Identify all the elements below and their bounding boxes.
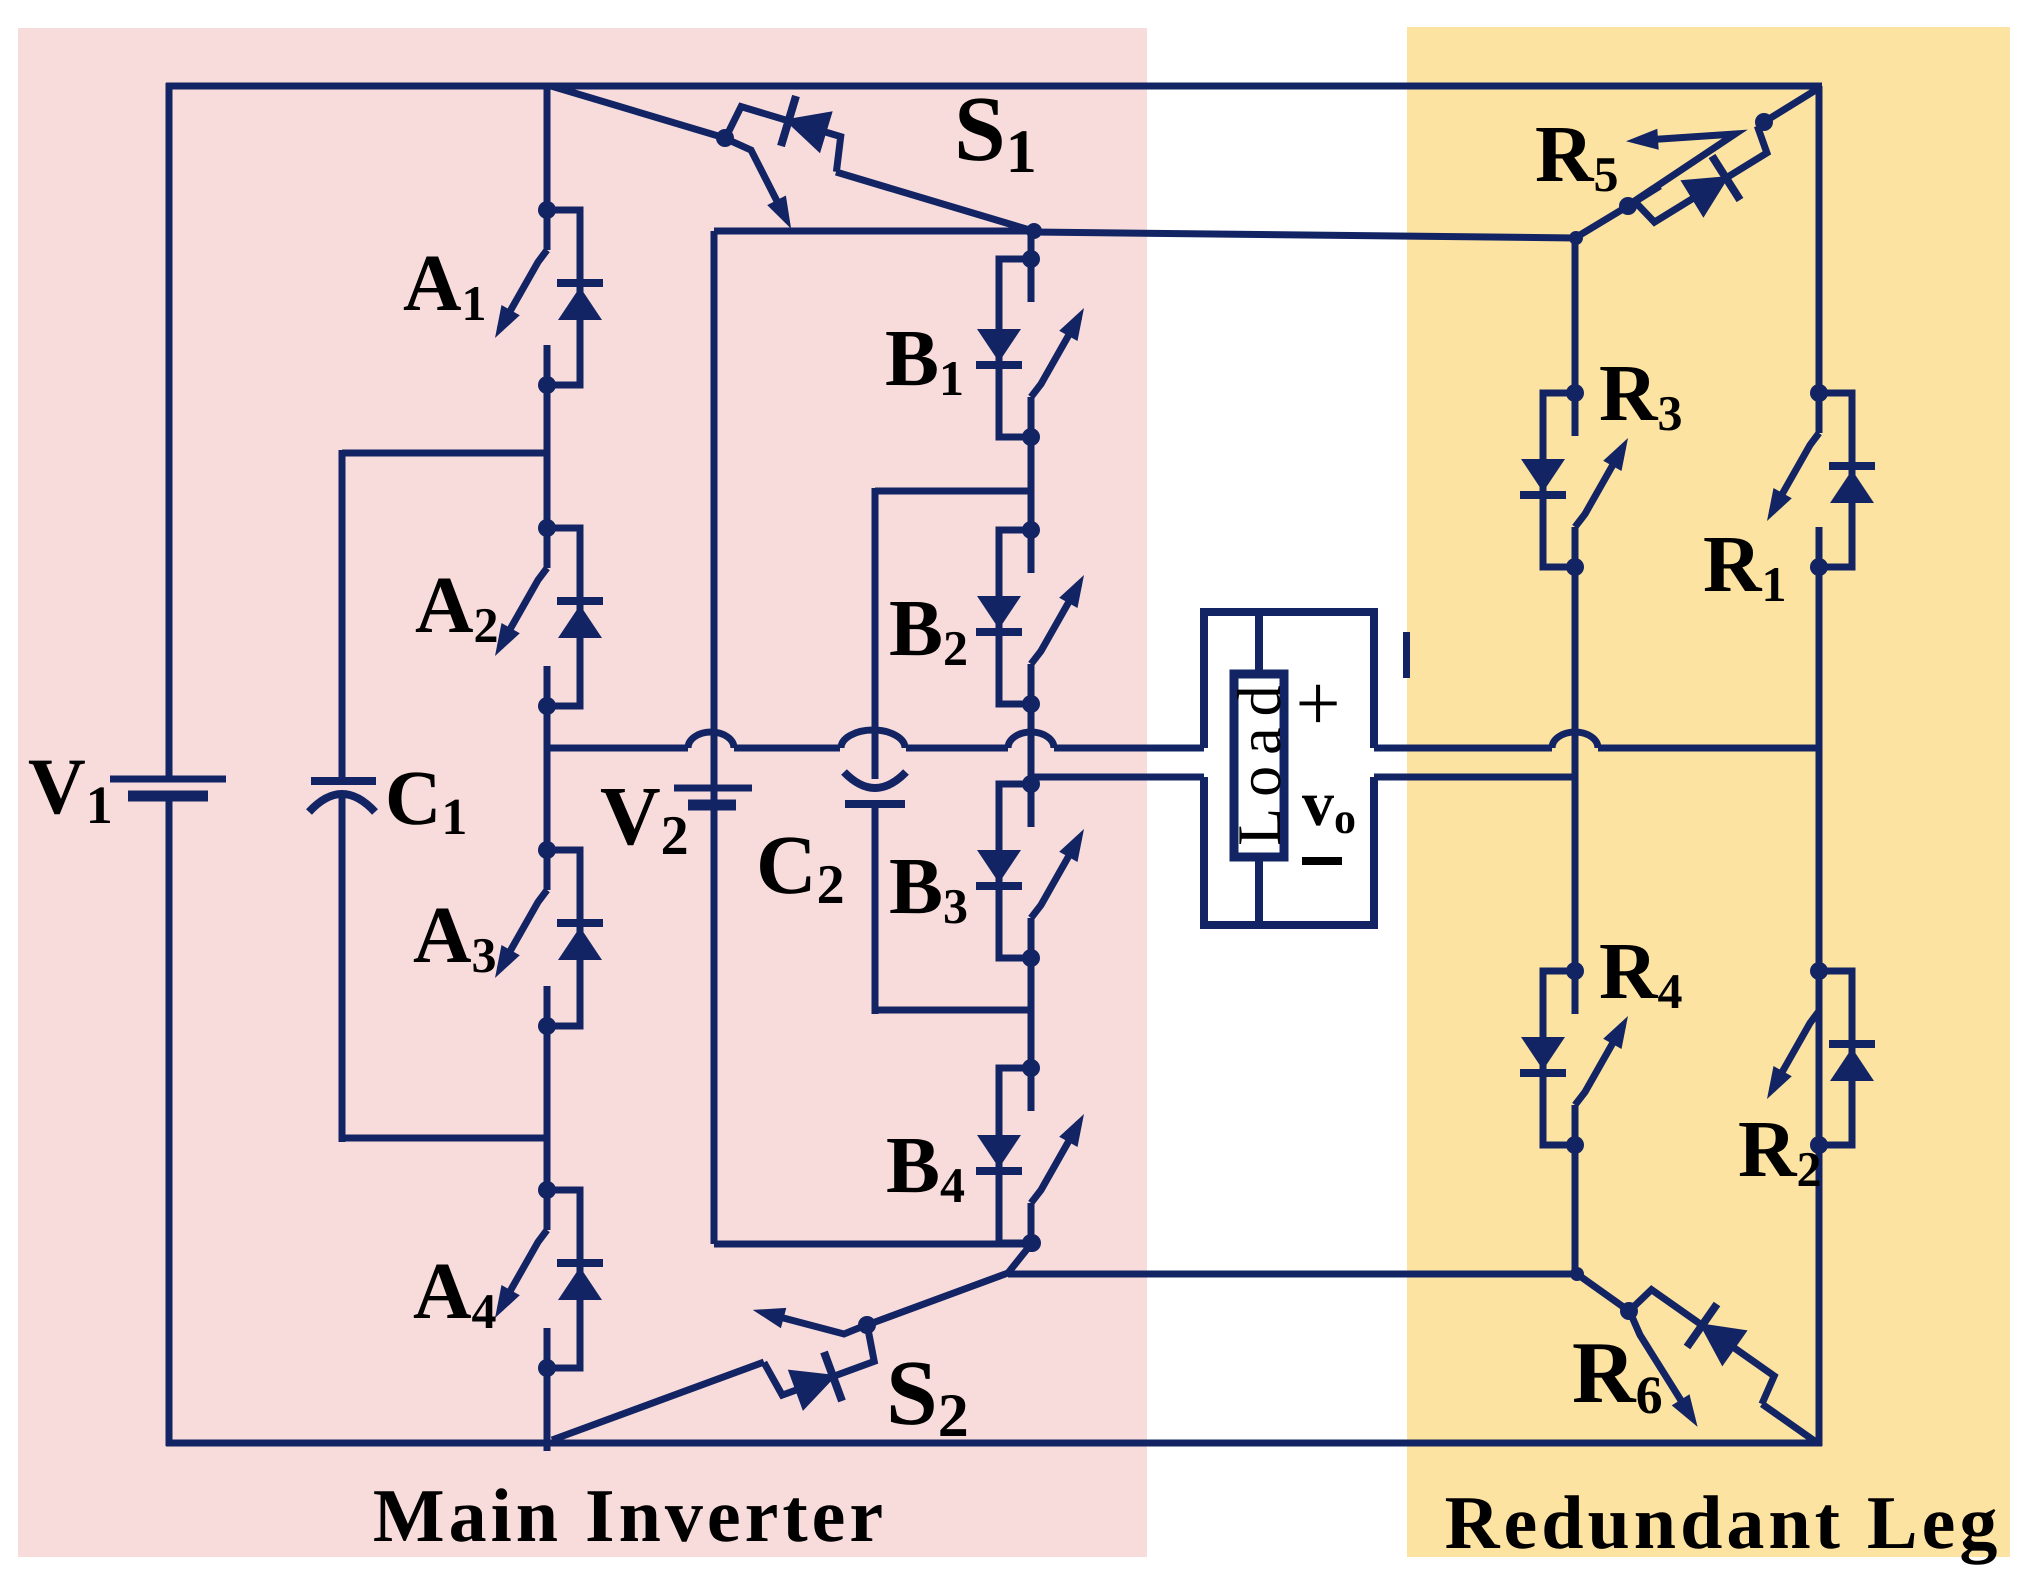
- wire B leg segments: [1028, 231, 1035, 259]
- switch B3: [976, 775, 1084, 967]
- switch B1: [976, 250, 1084, 446]
- switch R1: [1767, 384, 1875, 576]
- bidirectional switch R5: [1575, 88, 1819, 238]
- node R mid bottom: [1570, 1267, 1584, 1281]
- svg-text:Redundant Leg: Redundant Leg: [1445, 1481, 2002, 1565]
- wire R mid leg: [1033, 232, 1576, 1275]
- wire C1 branch top: [342, 450, 547, 457]
- wire bottom bus: [166, 1440, 1822, 1447]
- wire A leg: [544, 86, 551, 210]
- capacitor C2: [844, 772, 906, 804]
- svg-text:Load: Load: [1226, 674, 1294, 845]
- load box: [1234, 674, 1284, 857]
- redundant leg region background: [1407, 27, 2010, 1557]
- wire mid bus right with crossover: [1374, 745, 1819, 752]
- wire top bus: [166, 83, 1822, 90]
- switch R3: [1520, 384, 1628, 576]
- svg-text:+: +: [1295, 660, 1340, 748]
- capacitor C1: [309, 781, 376, 812]
- svg-text:vo: vo: [1302, 768, 1356, 843]
- node B4 bottom: [1023, 1234, 1041, 1252]
- wire mid bus left with crossovers: [547, 745, 1204, 752]
- svg-text:Main Inverter: Main Inverter: [373, 1474, 887, 1558]
- main inverter region background: [18, 28, 1147, 1557]
- wire R right leg: [1816, 86, 1823, 1446]
- switch A3: [495, 841, 603, 1035]
- bidirectional switch S2: [552, 1273, 1008, 1440]
- voltage source V2: [674, 788, 752, 805]
- wire C1 leads: [339, 450, 346, 781]
- switch R4: [1520, 962, 1628, 1154]
- wire lower bus left: [1031, 774, 1204, 781]
- switch R2: [1767, 962, 1875, 1154]
- bidirectional switch S1: [551, 86, 1033, 231]
- switch A1: [495, 201, 603, 394]
- switch B4: [976, 1059, 1084, 1252]
- wire B4 to lower right bus: [1008, 1243, 1578, 1274]
- load outer frame: [1204, 612, 1374, 925]
- switch B2: [976, 521, 1084, 713]
- node B frame corner: [1026, 223, 1042, 239]
- voltage source V1: [110, 779, 226, 796]
- load box leads: [1255, 612, 1263, 674]
- wire C2 frame bottom: [875, 1007, 1031, 1014]
- wire C2 frame top: [875, 488, 1031, 495]
- wire C1 branch bottom: [342, 1135, 547, 1142]
- wire C2 leads: [872, 488, 879, 779]
- wire B frame: [714, 231, 1032, 1244]
- switch A2: [495, 519, 603, 715]
- switch A4: [495, 1181, 603, 1377]
- bidirectional switch R6: [1577, 1274, 1816, 1442]
- wire V1 leg upper: [166, 83, 173, 779]
- wire V1 leg lower: [166, 796, 173, 1446]
- node R mid top: [1569, 231, 1583, 245]
- wire lower bus right: [1374, 774, 1578, 781]
- label minus: [1302, 857, 1342, 865]
- current mark: [1403, 632, 1410, 678]
